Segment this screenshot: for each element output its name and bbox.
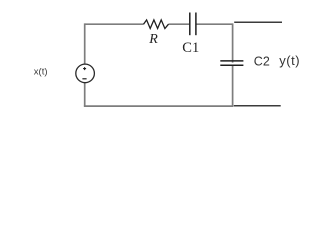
svg-text:R: R	[148, 32, 158, 47]
capacitor C2 top plate	[220, 60, 243, 62]
svg-text:y(t): y(t)	[279, 53, 300, 68]
wire left vertical upper (top corner down to source)	[84, 23, 86, 64]
resistor R	[144, 20, 169, 29]
svg-text:x(t): x(t)	[34, 66, 48, 77]
capacitor C2 bottom plate	[220, 64, 243, 66]
svg-text:C1: C1	[182, 40, 199, 56]
wire right vertical upper (corner down to C2)	[232, 23, 234, 62]
output terminal top line	[234, 21, 282, 23]
capacitor C1 left plate	[189, 13, 191, 36]
wire right vertical lower (C2 to bottom wire)	[232, 65, 234, 106]
voltage source minus sign	[82, 78, 86, 80]
voltage source V1 circle	[76, 64, 95, 83]
voltage source plus sign	[83, 67, 86, 70]
svg-text:C2: C2	[254, 54, 270, 68]
wire resistor to C1	[169, 23, 190, 25]
output terminal bottom line	[234, 105, 281, 107]
wire C1 to top-right corner	[196, 23, 232, 25]
capacitor C1 right plate	[195, 13, 197, 36]
wire bottom horizontal	[84, 105, 234, 107]
wire left vertical lower (source to bottom wire)	[84, 83, 86, 107]
wire top-left horizontal (source to resistor)	[85, 23, 144, 25]
